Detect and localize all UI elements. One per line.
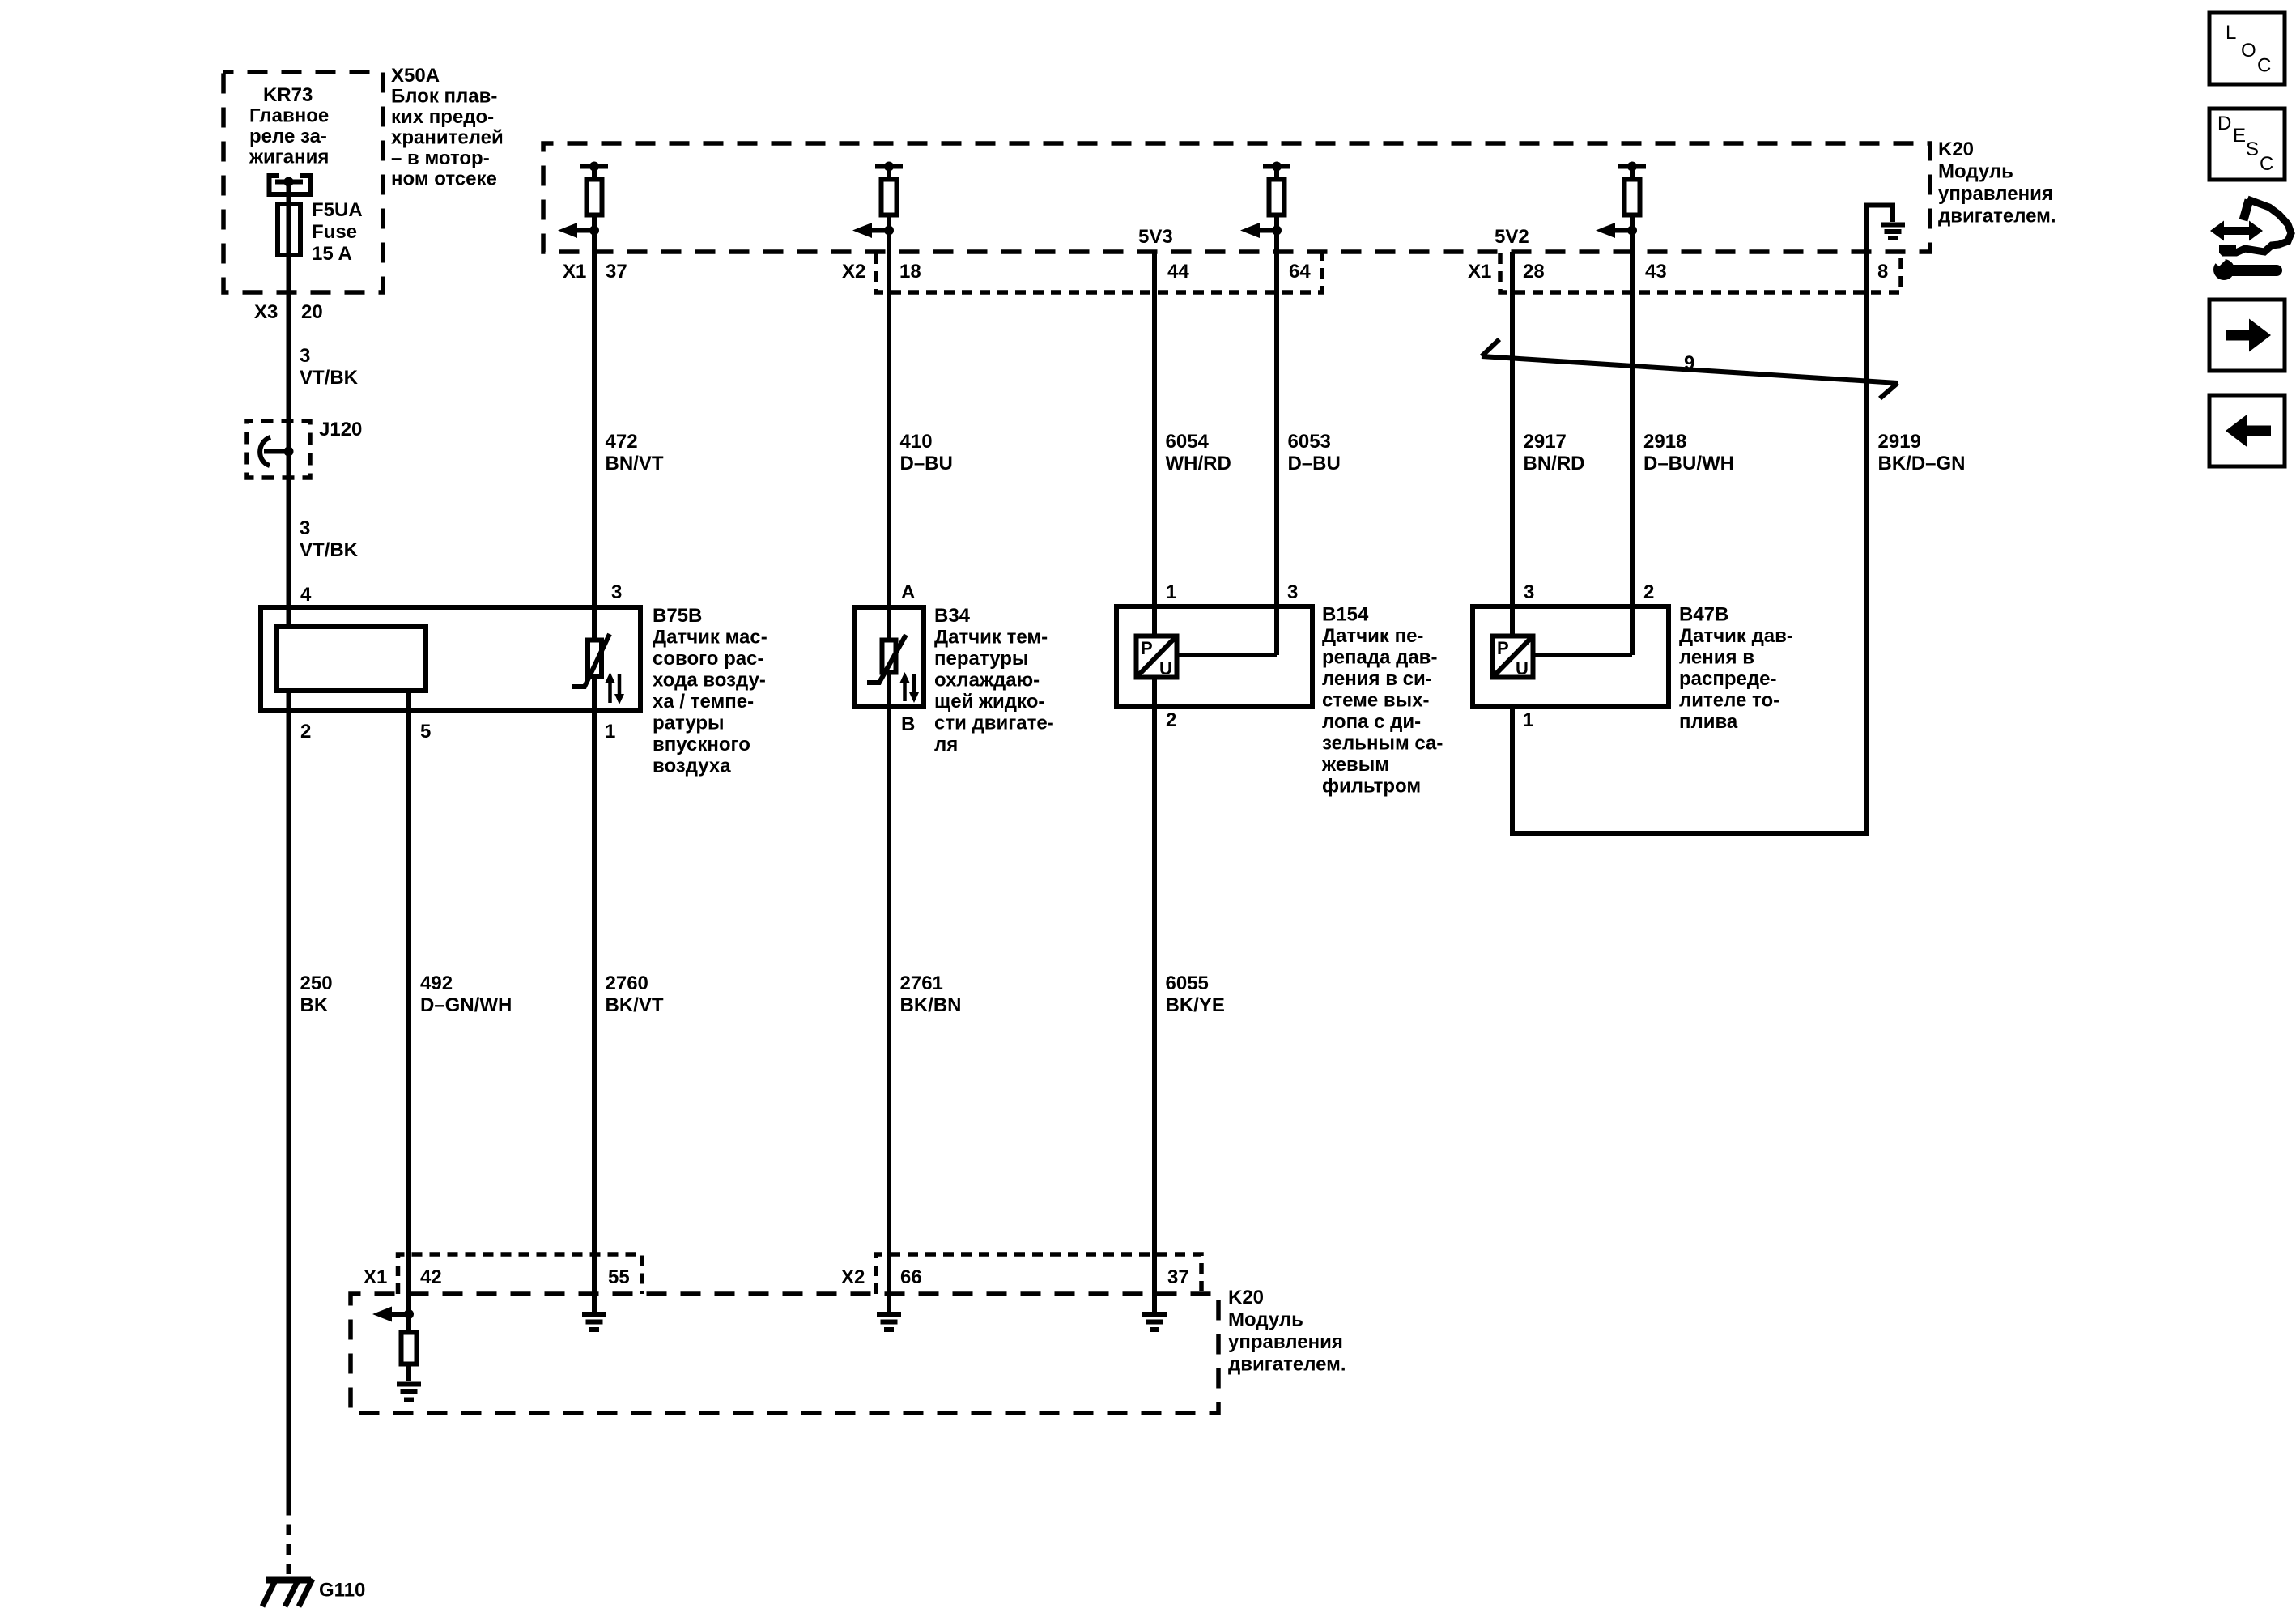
svg-text:ких предо-: ких предо- [391,106,494,128]
pin label X3 | 20 [254,301,323,323]
svg-text:BK: BK [300,994,329,1016]
svg-text:U: U [1159,658,1172,679]
svg-text:ля: ля [934,734,958,755]
wire label 2917 BN/RD [1524,431,1585,474]
svg-text:щей жидко-: щей жидко- [934,691,1044,713]
wire J120 to B75B pin 4 [287,452,291,630]
svg-text:250: 250 [300,972,333,994]
svg-text:E: E [2233,125,2246,147]
svg-text:D–BU/WH: D–BU/WH [1643,453,1734,474]
wire label 2918 D-BU/WH [1643,431,1734,474]
wire label 6054 WH/RD [1166,431,1231,474]
wire label 3 VT/BK (upper) [300,345,359,389]
svg-text:B75B: B75B [653,605,702,627]
wire 2917 BN/RD (pin 28 to B47B pin 3) [1510,252,1515,634]
wire label 2919 BK/D-GN [1878,431,1966,474]
svg-text:2760: 2760 [606,972,648,994]
svg-text:ратуры: ратуры [653,713,725,734]
svg-text:2917: 2917 [1524,431,1567,453]
svg-text:впускного: впускного [653,734,750,755]
svg-text:3: 3 [1524,581,1534,603]
svg-text:1: 1 [1523,709,1533,731]
wire label 3 VT/BK (lower) [300,517,359,561]
svg-text:6053: 6053 [1288,431,1331,453]
svg-text:BK/BN: BK/BN [900,994,962,1016]
svg-text:– в мотор-: – в мотор- [391,147,490,169]
svg-text:двигателем.: двигателем. [1938,206,2056,228]
svg-text:472: 472 [606,431,638,453]
svg-text:20: 20 [301,301,323,323]
svg-text:1: 1 [1166,581,1176,603]
svg-text:B: B [901,713,915,735]
svg-text:L: L [2226,22,2236,44]
svg-text:410: 410 [900,431,933,453]
svg-text:43: 43 [1645,261,1667,283]
svg-text:C: C [2260,153,2273,175]
fuse F5UA [278,204,300,255]
svg-text:6054: 6054 [1166,431,1210,453]
label B34 sensor description [934,605,1054,755]
wire label 2760 BK/VT [606,972,664,1016]
wire 410 D-BU (pin 18 to B34 pin A) [887,231,891,639]
svg-text:X1: X1 [1468,261,1491,283]
dashed wire segment to G110 [287,1504,291,1574]
svg-text:8: 8 [1877,261,1888,283]
svg-text:зельным са-: зельным са- [1322,733,1443,755]
svg-text:2: 2 [300,721,311,743]
sensor B47B box [1473,606,1669,706]
svg-text:хода возду-: хода возду- [653,670,766,691]
ECU internal ground at pin 66 [877,1314,901,1330]
ECU internal resistor + arrow at pin 64 [1240,162,1290,253]
svg-text:9: 9 [1684,352,1694,374]
connector X1 dotted outline (bottom) [398,1254,643,1294]
wire label 6055 BK/YE [1166,972,1225,1016]
label fuse F5UA 15 A [312,199,363,265]
svg-text:BN/RD: BN/RD [1524,453,1585,474]
svg-text:ления в: ления в [1679,647,1754,669]
ECU internal ground at pin 37 [1142,1314,1167,1330]
svg-text:стеме вых-: стеме вых- [1322,690,1430,712]
wire label 250 BK [300,972,333,1016]
ECU internal ground at pin 8 [1867,206,1905,253]
svg-text:охлаждаю-: охлаждаю- [934,670,1040,691]
svg-text:C: C [2257,55,2271,77]
svg-text:Модуль: Модуль [1228,1309,1303,1331]
svg-text:U: U [1516,658,1529,679]
icon DESC box [2209,109,2285,180]
svg-text:ном отсеке: ном отсеке [391,168,497,190]
svg-text:44: 44 [1167,261,1189,283]
B75B IAT thermistor [572,634,610,687]
svg-text:X1: X1 [364,1266,387,1288]
wire 6055 BK/YE (B154 pin 2 to K20 pin 37) [1152,679,1157,1312]
svg-text:G110: G110 [319,1580,365,1602]
sensor B75B box [261,607,640,710]
svg-text:X50A: X50A [391,65,440,87]
pin labels X1 42 (bottom) [364,1266,442,1288]
svg-text:37: 37 [1167,1266,1189,1288]
crossing mark 9 (shared splice symbol) [1482,339,1898,398]
svg-text:BK/D–GN: BK/D–GN [1878,453,1966,474]
svg-text:3: 3 [1287,581,1298,603]
label B47B sensor description [1679,604,1793,734]
wire 2761 BK/BN (B34 pin B to K20 pin 66) [887,674,891,1312]
svg-text:S: S [2246,138,2259,160]
svg-text:X3: X3 [254,301,278,323]
wire 2918 D-BU/WH (pin 43 to B47B pin 2) [1630,231,1635,656]
wire 492 D-GN/WH (B75B pin 5 to K20 pin 42) [406,691,411,1314]
icon arrow right box [2209,300,2285,371]
relay KR73 contact symbol [270,176,311,194]
svg-text:двигателем.: двигателем. [1228,1354,1346,1376]
ECU internal resistor + arrow at pin X2-18 [852,162,903,253]
svg-text:X2: X2 [842,261,865,283]
svg-text:B34: B34 [934,605,971,627]
svg-text:лопа с ди-: лопа с ди- [1322,711,1421,733]
svg-text:Модуль: Модуль [1938,161,2013,183]
svg-text:66: 66 [900,1266,922,1288]
svg-text:492: 492 [420,972,453,994]
svg-text:A: A [901,581,915,603]
svg-text:Датчик пе-: Датчик пе- [1322,625,1423,647]
svg-text:4: 4 [300,584,312,606]
svg-text:VT/BK: VT/BK [300,367,359,389]
icon LOC box [2209,12,2285,84]
svg-text:Датчик тем-: Датчик тем- [934,627,1048,649]
svg-text:3: 3 [300,517,310,539]
svg-text:реле за-: реле за- [249,126,327,147]
svg-text:X1: X1 [563,261,586,283]
svg-text:хранителей: хранителей [391,127,504,149]
svg-text:KR73: KR73 [263,84,313,106]
sensor B34 box [854,607,924,706]
svg-text:VT/BK: VT/BK [300,539,359,561]
B75B thermistor arrows [606,672,625,704]
svg-text:X2: X2 [841,1266,865,1288]
svg-text:2: 2 [1166,709,1176,731]
sensor B154 box [1116,606,1312,706]
svg-text:5V2: 5V2 [1495,226,1529,248]
ground G110 chassis symbol [262,1579,313,1606]
svg-text:D–BU: D–BU [900,453,953,474]
B34 thermistor [867,635,906,683]
svg-text:репада дав-: репада дав- [1322,647,1437,669]
wire 6054 WH/RD (pin 44 to B154 pin 1) [1152,252,1157,634]
pin labels X2 66 (bottom) [841,1266,922,1288]
pin labels X1 28 [1468,261,1545,283]
wire label 472 BN/VT [606,431,664,474]
svg-text:BK/VT: BK/VT [606,994,664,1016]
connector X2 dotted outline (bottom) [876,1254,1201,1294]
svg-text:BN/VT: BN/VT [606,453,664,474]
svg-text:управления: управления [1938,183,2053,205]
svg-text:28: 28 [1523,261,1545,283]
ECU internal ground at pin 55 [582,1314,606,1330]
svg-text:42: 42 [420,1266,442,1288]
wire 250 BK (B75B pin 2 to G110) [287,691,291,1504]
svg-text:1: 1 [605,721,615,743]
label X50A fuse block [391,65,504,190]
icon arrow left box [2209,395,2285,466]
B34 thermistor arrows [900,672,920,703]
wire label 2761 BK/BN [900,972,962,1016]
svg-text:ха / темпе-: ха / темпе- [653,691,754,713]
svg-text:37: 37 [606,261,627,283]
B47B internal link wire pin2 [1535,653,1632,657]
wire 472 BN/VT (pin 37 to B75B pin 3) [592,231,597,639]
svg-text:F5UA: F5UA [312,199,363,221]
svg-text:жигания: жигания [249,147,329,168]
pin labels X2 18 [842,261,921,283]
connector X2 dotted outline (top) [876,253,1322,292]
svg-text:15 A: 15 A [312,243,352,265]
svg-text:2761: 2761 [900,972,943,994]
label B154 sensor description [1321,604,1443,798]
ECU internal resistor + arrow at pin X1-37 [558,162,608,253]
ECU internal resistor + arrow at pin 43 [1596,162,1646,253]
ECU K20 top dashed box [543,143,1930,252]
wire label 492 D-GN/WH [420,972,512,1016]
svg-text:2919: 2919 [1878,431,1921,453]
svg-text:6055: 6055 [1166,972,1209,994]
svg-text:WH/RD: WH/RD [1166,453,1231,474]
icon repair (hand with double arrow and wrench) [2209,199,2291,280]
svg-text:Главное: Главное [249,105,329,127]
connector X1 dotted outline (top right) [1500,253,1901,292]
svg-text:P: P [1497,638,1509,658]
svg-text:Датчик мас-: Датчик мас- [653,627,767,649]
svg-text:B47B: B47B [1679,604,1728,626]
B47B P/U pressure transducer [1493,636,1533,679]
svg-text:5V3: 5V3 [1138,226,1173,248]
wire 6053 D-BU (pin 64 to B154 pin 3) [1274,231,1279,656]
ECU internal resistor + arrow + ground at pin 42 [372,1307,421,1400]
svg-text:18: 18 [899,261,921,283]
svg-text:распреде-: распреде- [1679,668,1776,690]
svg-text:D–GN/WH: D–GN/WH [420,994,512,1016]
wire label 410 D-BU [900,431,953,474]
pin labels X1 37 [563,261,627,283]
svg-text:воздуха: воздуха [653,755,731,777]
connector J120 [247,421,310,478]
svg-text:3: 3 [300,345,310,367]
svg-text:Блок плав-: Блок плав- [391,86,497,108]
fuse block X50A dashed enclosure [223,72,383,292]
wire label 6053 D-BU [1288,431,1341,474]
wire from relay through fuse to J120 [287,182,291,452]
svg-text:J120: J120 [319,419,362,440]
B154 P/U pressure transducer [1137,636,1177,679]
K20 bottom label [1228,1287,1346,1376]
svg-text:B154: B154 [1322,604,1369,626]
svg-text:5: 5 [420,721,431,743]
svg-text:K20: K20 [1228,1287,1264,1308]
B75B MAF element rectangle [277,627,426,691]
label relay KR73 [249,84,329,168]
ECU K20 bottom dashed box [351,1294,1218,1413]
svg-text:жевым: жевым [1321,754,1389,776]
svg-text:BK/YE: BK/YE [1166,994,1225,1016]
svg-text:ления в си-: ления в си- [1322,668,1432,690]
B154 internal link wire pin3 [1179,653,1277,657]
svg-text:P: P [1141,638,1153,658]
svg-text:55: 55 [608,1266,630,1288]
svg-text:2918: 2918 [1643,431,1686,453]
svg-text:сти двигате-: сти двигате- [934,713,1054,734]
wire 2760 BK/VT (B75B pin 1 to K20 pin 55) [592,679,597,1312]
svg-text:64: 64 [1289,261,1311,283]
svg-text:D–BU: D–BU [1288,453,1341,474]
svg-text:лителе то-: лителе то- [1679,690,1779,712]
wire 2919 BK/D-GN (pin 8 down and left to B47B pin 1) [1512,252,1867,833]
K20 top label [1938,138,2056,228]
svg-text:K20: K20 [1938,138,1974,160]
svg-text:3: 3 [611,581,622,603]
svg-text:плива: плива [1679,711,1738,733]
svg-text:Fuse: Fuse [312,221,357,243]
svg-text:Датчик дав-: Датчик дав- [1679,625,1793,647]
svg-text:D: D [2217,113,2231,134]
svg-text:управления: управления [1228,1331,1343,1353]
svg-text:сового рас-: сового рас- [653,648,763,670]
svg-text:фильтром: фильтром [1322,776,1421,798]
svg-text:пературы: пературы [934,648,1028,670]
label B75B sensor description [653,605,767,777]
svg-text:O: O [2241,40,2256,62]
svg-text:2: 2 [1643,581,1654,603]
